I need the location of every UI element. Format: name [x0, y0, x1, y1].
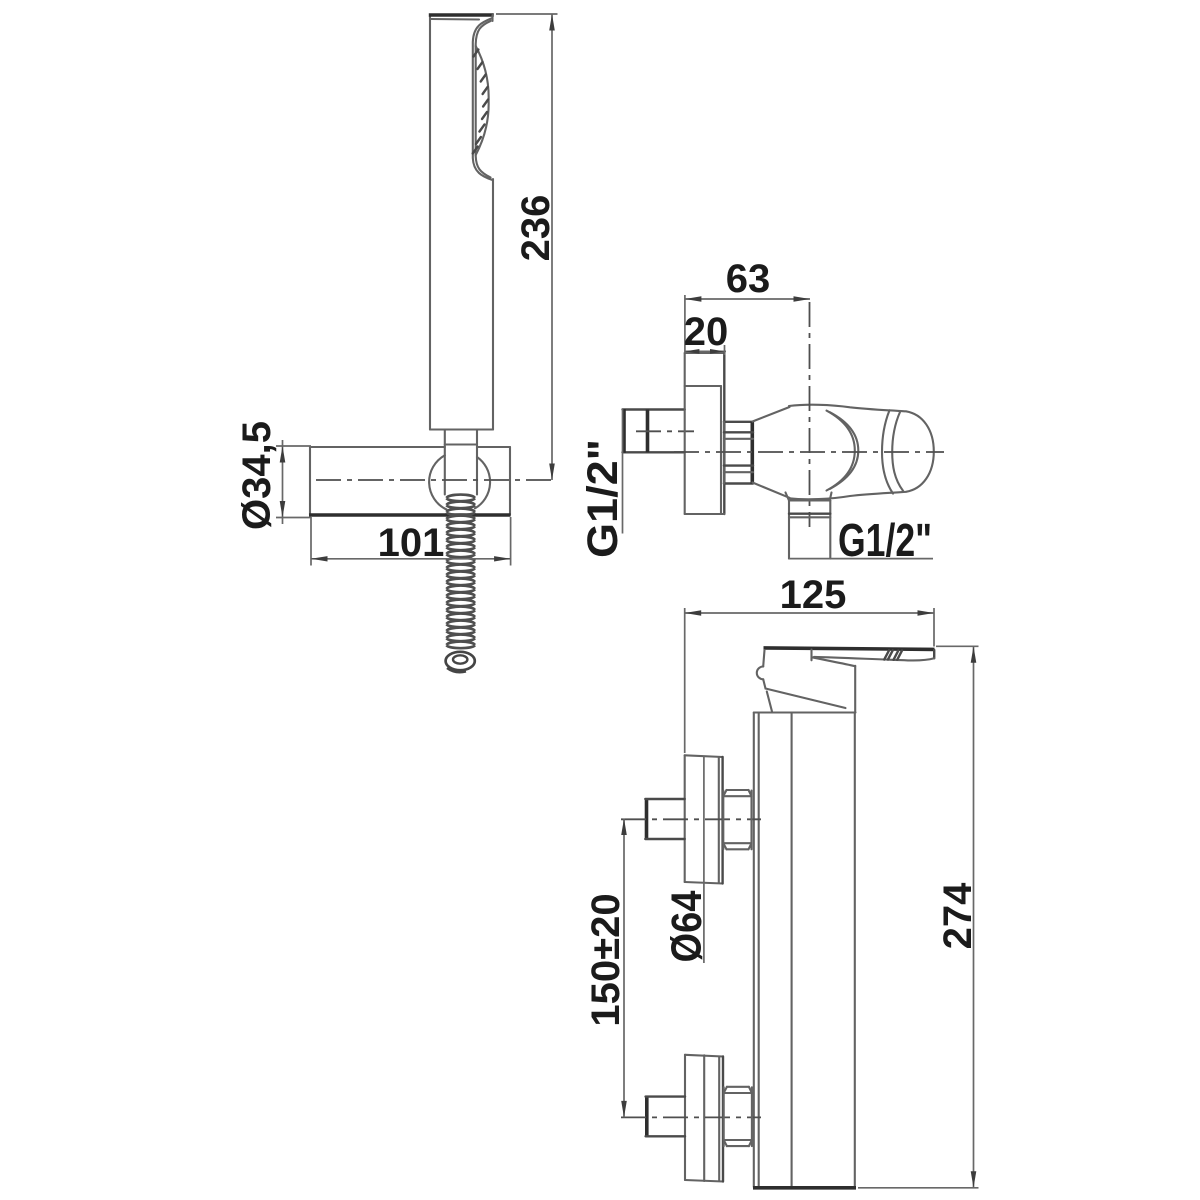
- wand tail into bracket: [445, 430, 477, 495]
- svg-text:101: 101: [378, 521, 445, 565]
- upper union nut: [723, 790, 751, 849]
- lower pipe centerline: [621, 1116, 761, 1118]
- lever hatch marks: [884, 650, 902, 659]
- outlet pipe G1/2 down: [789, 501, 830, 559]
- knurled nut: [724, 422, 753, 484]
- label G1/2 outlet with leader: [789, 514, 933, 566]
- svg-text:236: 236: [514, 195, 558, 262]
- svg-text:63: 63: [726, 257, 771, 301]
- upper flange face line and Ø64 leader: [703, 756, 705, 963]
- wall supply pipe G1/2: [623, 409, 685, 453]
- dimension 150±20: [584, 819, 628, 1118]
- mixer body: [753, 713, 856, 1188]
- valve vertical centerline: [809, 302, 811, 527]
- lower inlet pipe: [646, 1096, 685, 1137]
- dimension Ø34,5: [235, 421, 311, 530]
- lower wall flange: [685, 1055, 723, 1182]
- wall bracket bar: [309, 447, 511, 515]
- mixer lever top: [764, 648, 935, 650]
- svg-text:G1/2": G1/2": [838, 514, 932, 566]
- flexible hose coil: [446, 495, 475, 649]
- svg-text:274: 274: [936, 882, 980, 949]
- svg-text:150±20: 150±20: [584, 893, 628, 1026]
- dimension 236: [496, 14, 558, 480]
- wall flange escutcheon: [685, 353, 725, 514]
- outlet neck: [786, 493, 832, 501]
- svg-text:Ø64: Ø64: [663, 890, 711, 962]
- label G1/2 inlet: [579, 409, 627, 558]
- lower union nut: [724, 1087, 752, 1146]
- spray face hatch ticks: [473, 50, 488, 154]
- dimension 63: [685, 257, 810, 353]
- dimension 20: [684, 310, 729, 355]
- diverter valve body: [753, 405, 934, 500]
- bracket centerline: [316, 479, 556, 481]
- supply pipe centerline: [636, 430, 694, 432]
- dimension 274: [858, 646, 980, 1188]
- bracket holder ring: [429, 455, 490, 509]
- hand shower spray face: [473, 18, 493, 180]
- dimension 125: [685, 573, 934, 753]
- valve horizontal centerline: [674, 451, 944, 453]
- upper pipe centerline: [621, 818, 761, 820]
- svg-text:20: 20: [684, 310, 729, 354]
- svg-text:125: 125: [780, 573, 847, 617]
- svg-text:G1/2": G1/2": [579, 439, 627, 558]
- lever right end: [812, 650, 935, 661]
- lever finger groove lens: [812, 657, 856, 666]
- upper inlet pipe: [645, 798, 684, 839]
- hand shower wand body: [429, 15, 494, 430]
- wand bottom step: [430, 428, 493, 430]
- dimension 101: [311, 517, 511, 566]
- knob junction arcs: [882, 410, 903, 493]
- svg-text:Ø34,5: Ø34,5: [235, 421, 279, 530]
- upper wall flange: [685, 755, 723, 883]
- hose end fitting: [446, 652, 475, 672]
- cartridge head: [757, 650, 855, 712]
- valve dome crescent: [827, 411, 859, 491]
